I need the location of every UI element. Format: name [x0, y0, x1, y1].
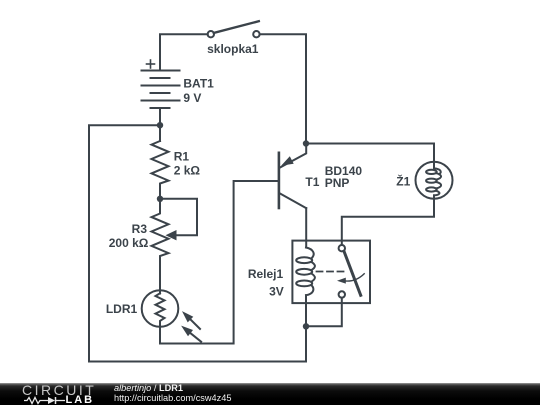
- relay dashed actuation line: [317, 271, 346, 273]
- LDR light arrow 2: [181, 326, 201, 342]
- svg-text:R3: R3: [132, 222, 148, 236]
- wire switch to vertical rail: [260, 34, 306, 140]
- footer url line: [114, 393, 231, 403]
- node emitter junction: [303, 140, 309, 146]
- relay contact top pin: [339, 245, 345, 251]
- svg-text:PNP: PNP: [325, 176, 350, 190]
- svg-text:200 kΩ: 200 kΩ: [109, 236, 149, 250]
- wire left rail: [89, 125, 306, 361]
- logo LAB: [66, 394, 95, 406]
- svg-text:BAT1: BAT1: [183, 77, 214, 91]
- svg-text:2 kΩ: 2 kΩ: [174, 163, 201, 177]
- node R1/R3 junction: [157, 196, 163, 202]
- footer bar: [0, 383, 540, 405]
- transistor emitter arrow: [281, 156, 294, 165]
- switch sklopka1: [208, 21, 260, 37]
- svg-text:T1: T1: [305, 175, 319, 189]
- resistor R1: [152, 141, 169, 199]
- svg-text:LDR1: LDR1: [106, 302, 138, 316]
- svg-text:9 V: 9 V: [183, 91, 201, 105]
- node relay bottom junction: [303, 323, 309, 329]
- battery plus sign: [147, 60, 155, 68]
- wire emitter node to lamp: [306, 144, 434, 162]
- relay contact bottom pin: [339, 291, 345, 297]
- node battery-/left-rail junction: [157, 122, 163, 128]
- wire LDR to base: [160, 181, 278, 344]
- transistor T1: [279, 144, 306, 209]
- wire collector to relay coil: [305, 208, 307, 247]
- svg-text:Relej1: Relej1: [248, 267, 284, 281]
- footer title line: [114, 383, 183, 393]
- pot wiper arrow R3: [166, 230, 177, 240]
- wire lamp to relay contact: [342, 199, 434, 245]
- svg-text:3V: 3V: [269, 285, 284, 299]
- wire battery- down to R1: [159, 108, 161, 141]
- wire pot feedback loop: [160, 199, 197, 235]
- logo resistor squiggle: [24, 396, 66, 405]
- battery BAT1: [142, 71, 180, 109]
- relay coil: [296, 248, 315, 296]
- wire contact bottom to node: [306, 298, 342, 327]
- photoresistor LDR1: [142, 290, 179, 327]
- svg-text:sklopka1: sklopka1: [207, 42, 259, 56]
- relay lever: [344, 251, 361, 295]
- svg-text:Ž1: Ž1: [396, 174, 410, 189]
- wire battery+ to switch: [160, 34, 208, 70]
- wire coil bottom to node: [305, 295, 307, 326]
- potentiometer R3: [152, 199, 169, 294]
- relay arrow arc: [337, 274, 364, 284]
- svg-text:R1: R1: [174, 150, 190, 164]
- relay Relej1 box: [292, 241, 370, 304]
- LDR light arrow 1: [182, 311, 200, 329]
- lamp Z1: [416, 162, 453, 199]
- logo CIRCUIT: [22, 382, 96, 398]
